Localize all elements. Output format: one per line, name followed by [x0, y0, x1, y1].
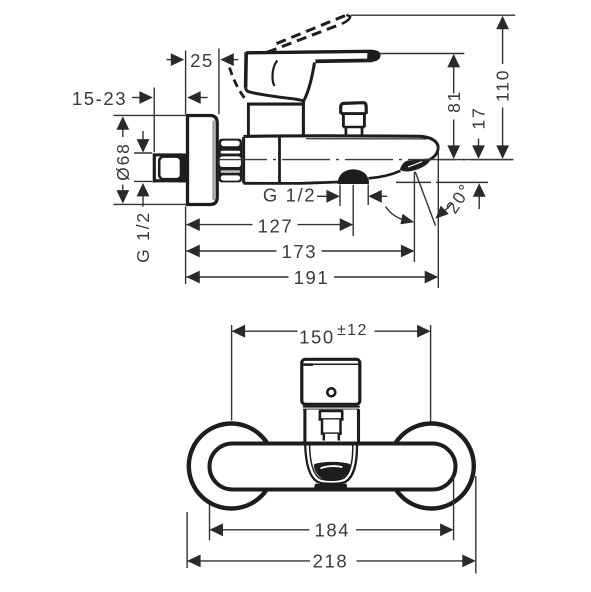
dim O68 top arrow — [116, 116, 129, 137]
dim 150 right ext line — [430, 325, 432, 422]
svg-text:Ø68: Ø68 — [113, 142, 133, 180]
dim 127 left arrow — [186, 218, 200, 231]
handle knob front — [302, 359, 360, 404]
dim 184 line — [210, 529, 441, 531]
dim 191 right arrow — [425, 271, 439, 284]
left G1/2 top arrow — [137, 131, 150, 153]
dim 218 left arrow — [187, 555, 201, 568]
ext line wall face — [153, 88, 155, 153]
cartridge step 3 — [324, 434, 339, 441]
water stream dashed line — [396, 181, 488, 183]
shower outlet dome — [338, 169, 369, 184]
dim 184 left ext line — [209, 505, 211, 541]
svg-text:110: 110 — [492, 69, 512, 102]
svg-text:127: 127 — [258, 215, 294, 236]
dim 218 right ext line — [475, 476, 477, 574]
svg-text:20°: 20° — [442, 179, 476, 217]
ext line escutcheon face upper — [185, 51, 187, 115]
dim 150 left ext line — [231, 325, 233, 421]
lever tip fill — [367, 51, 379, 60]
dim 150 line — [232, 330, 418, 332]
spout right edge — [429, 147, 438, 160]
union nut (ribbed connector) — [219, 139, 242, 183]
dome center ext line — [352, 185, 354, 236]
handle right-side curve — [304, 63, 315, 101]
dim O68 bottom arrow — [116, 185, 129, 204]
dim 184 left arrow — [210, 523, 224, 536]
svg-text:173: 173 — [281, 241, 317, 262]
knob seam band — [303, 407, 360, 410]
dim 184 right ext line — [453, 477, 455, 541]
svg-text:17: 17 — [468, 106, 488, 129]
cartridge step 2 — [321, 419, 342, 433]
dim 81 — [447, 54, 460, 159]
body left edge — [242, 137, 245, 183]
cartridge housing — [247, 101, 305, 137]
knob set screw — [327, 388, 335, 396]
svg-text:191: 191 — [294, 267, 330, 288]
handle left edge — [244, 52, 248, 87]
stream angle line — [415, 172, 435, 226]
dim O68 top ext line — [114, 114, 187, 116]
dim 150 left arrow — [232, 325, 246, 338]
handle body fill — [246, 50, 379, 101]
right wall rosette circle — [389, 424, 474, 509]
centerline right solid segment — [438, 159, 514, 161]
dim 150 right arrow — [417, 325, 431, 338]
dim 191 left arrow — [186, 271, 200, 284]
mid G1/2 left arrow — [368, 190, 387, 203]
lever tip ext line — [351, 14, 515, 16]
spout tip ext line — [437, 151, 439, 288]
spout mouth bowl — [314, 462, 351, 481]
spout front inner U — [310, 444, 353, 480]
spout base block — [314, 484, 349, 491]
lever top edge — [246, 51, 373, 53]
dim 127 right arrow — [340, 218, 354, 231]
dim 218 left ext line — [186, 512, 188, 568]
dashed skirt arc of open lever — [230, 68, 248, 102]
faucet body + spout fill — [244, 136, 439, 184]
spout front outer U — [305, 444, 357, 484]
svg-text:184: 184 — [314, 519, 350, 540]
svg-text:±12: ±12 — [337, 322, 368, 339]
angle 20 arrow — [435, 204, 452, 219]
spout underside curve — [369, 171, 401, 179]
pipe centerline — [219, 159, 513, 161]
svg-text:81: 81 — [444, 90, 464, 113]
body top highlight line — [306, 138, 427, 140]
dome left ext line — [339, 185, 341, 207]
wall nipple — [153, 153, 188, 183]
lever underside — [316, 59, 373, 64]
dim 15-23 right arrow — [132, 91, 153, 104]
curved leader arrow — [386, 207, 415, 225]
spout mouth highlight — [321, 466, 343, 468]
body top edge — [244, 136, 439, 147]
svg-text:15-23: 15-23 — [72, 88, 127, 109]
dim 17 upper — [472, 139, 485, 159]
dim 17 lower arrow — [473, 183, 486, 209]
nipple top ext line — [134, 152, 152, 154]
svg-text:150: 150 — [299, 327, 335, 348]
dim 25 right arrow — [220, 53, 238, 66]
svg-text:G 1/2: G 1/2 — [133, 211, 153, 263]
aerator slit — [408, 162, 422, 167]
dim 184 right arrow — [440, 523, 454, 536]
open lever solid tip cap — [342, 15, 350, 24]
svg-text:25: 25 — [190, 50, 214, 71]
dim 173 line — [186, 250, 401, 252]
aerator beak — [400, 159, 429, 172]
lever top ext line — [380, 53, 465, 55]
diverter knob — [341, 103, 367, 136]
left G1/2 bottom arrow — [137, 183, 150, 207]
nipple bottom ext line — [134, 180, 152, 182]
dome right ext line — [367, 185, 369, 206]
body bottom edge — [244, 182, 339, 183]
cartridge step 1 — [319, 411, 344, 419]
dim 218 line — [187, 560, 463, 562]
left wall rosette circle — [189, 424, 274, 509]
dim 173 left arrow — [186, 245, 200, 258]
wall plate escutcheon — [188, 116, 218, 205]
dim 127 line — [186, 224, 340, 226]
valve lower block — [303, 410, 361, 444]
svg-text:218: 218 — [313, 550, 349, 571]
dim 15-23 left arrow — [187, 91, 208, 104]
dashed open-position lever top edge — [277, 15, 347, 44]
body seam line — [278, 137, 281, 183]
handle skirt bottom — [246, 88, 304, 101]
mid G1/2 right arrow — [317, 190, 340, 203]
dim O68 bottom ext line — [114, 203, 187, 205]
dim 110 — [496, 16, 509, 159]
aerator ext line — [413, 172, 415, 262]
svg-text:G 1/2: G 1/2 — [263, 185, 316, 206]
ext line escutcheon face lower — [185, 207, 187, 285]
dashed open-position lever bottom edge — [267, 24, 342, 53]
lever tip cap — [373, 51, 380, 60]
body bar (pill) — [210, 444, 456, 490]
dim 173 right arrow — [401, 245, 415, 258]
dim 191 line — [186, 276, 425, 278]
dim 25 left arrow — [167, 53, 185, 66]
ext line escutcheon back — [218, 49, 220, 115]
dim 218 right arrow — [462, 555, 476, 568]
handle front crease — [272, 61, 277, 86]
